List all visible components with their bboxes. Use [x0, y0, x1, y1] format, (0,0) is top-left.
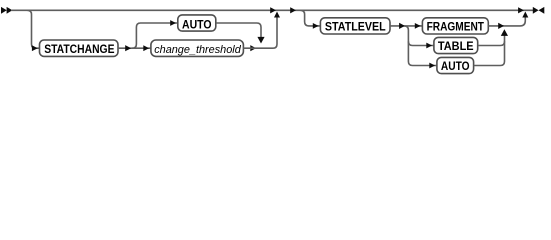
arrow into STATCHANGE — [32, 45, 38, 51]
wire main line — [11, 9, 533, 11]
wire branch up to AUTO row — [132, 23, 178, 48]
svg-text:STATLEVEL: STATLEVEL — [325, 20, 386, 34]
arrow up into main line (first rejoin) — [274, 12, 280, 18]
svg-text:STATCHANGE: STATCHANGE — [44, 42, 114, 56]
wire split vertical down to TABLE and AUTO rows — [404, 26, 437, 66]
wire baseline rise to main line — [243, 17, 277, 48]
wire AUTO exit and collector vertical — [474, 35, 505, 66]
arrow on FRAGMENT row before collector junction — [498, 23, 504, 29]
arrow up into main line (second rejoin) — [522, 12, 528, 18]
wire curve into TABLE row — [408, 41, 434, 45]
svg-text:change_threshold: change_threshold — [154, 44, 241, 56]
arrow on main line before first rejoin — [270, 7, 276, 13]
wire AUTO descent to baseline — [216, 23, 261, 38]
variable box change_threshold — [151, 40, 244, 56]
svg-text:AUTO: AUTO — [182, 18, 212, 32]
svg-text:TABLE: TABLE — [438, 39, 474, 53]
wire TABLE exit to collector — [478, 41, 505, 45]
keyword box TABLE — [434, 37, 478, 53]
arrow on main line before second branch — [290, 7, 296, 13]
svg-text:FRAGMENT: FRAGMENT — [427, 20, 485, 34]
arrow into AUTO — [170, 20, 176, 26]
arrow into change_threshold — [143, 45, 149, 51]
arrow on main line before end — [518, 7, 524, 13]
wire branch down to STATCHANGE row — [27, 10, 39, 48]
wire branch down to STATLEVEL row — [301, 10, 321, 26]
arrow down at merge — [257, 37, 264, 44]
wire after STATCHANGE — [118, 47, 151, 49]
keyword box STATLEVEL — [320, 18, 390, 34]
arrow after change_threshold — [250, 45, 256, 51]
keyword box FRAGMENT — [422, 18, 488, 34]
svg-text:AUTO: AUTO — [441, 59, 470, 73]
arrow into STATLEVEL — [313, 23, 319, 29]
arrow up collector into FRAGMENT row — [501, 29, 508, 36]
end symbol — [533, 7, 545, 14]
arrow after STATLEVEL — [399, 23, 405, 29]
arrow into AUTO (right) — [429, 63, 435, 69]
wire after STATLEVEL — [390, 25, 422, 27]
keyword box AUTO (left) — [178, 15, 216, 32]
arrow into FRAGMENT — [415, 23, 421, 29]
wire FRAGMENT row exit — [488, 17, 525, 26]
arrow into TABLE — [426, 43, 432, 49]
arrow after STATCHANGE — [125, 45, 131, 51]
keyword box AUTO (right) — [437, 57, 474, 73]
start symbol — [1, 7, 12, 14]
keyword box STATCHANGE — [40, 40, 119, 56]
